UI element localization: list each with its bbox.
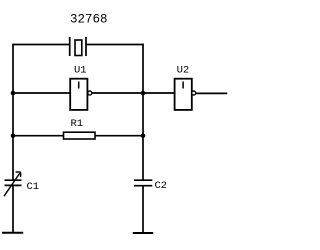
- svg-text:U2: U2: [177, 65, 190, 77]
- node junction left at R1 row: [11, 133, 16, 138]
- wire left rail: [12, 44, 14, 180]
- wire C2 down: [142, 186, 144, 233]
- inverter U1: [70, 79, 92, 110]
- ground under C1: [2, 232, 23, 234]
- wire U1 output to U2 input: [92, 92, 175, 94]
- svg-text:U1: U1: [74, 65, 87, 77]
- svg-text:C1: C1: [27, 181, 40, 193]
- wire U2 output: [196, 92, 228, 94]
- capacitor C2: [134, 180, 152, 186]
- node junction right rail at U1 row: [141, 91, 146, 96]
- svg-text:32768: 32768: [70, 13, 108, 27]
- resistor R1: [64, 132, 96, 139]
- wire R1 left: [13, 135, 64, 137]
- crystal Y1: [70, 37, 86, 56]
- node junction left at U1 row: [11, 91, 16, 96]
- wire C1 down: [12, 185, 14, 232]
- inverter U2: [175, 79, 196, 110]
- wire U1 input: [13, 92, 70, 94]
- svg-text:C2: C2: [155, 180, 168, 192]
- svg-text:R1: R1: [71, 118, 84, 130]
- wire right rail: [142, 44, 144, 180]
- capacitor C1 (variable): [4, 172, 22, 196]
- wire crystal to right rail: [86, 44, 144, 46]
- node junction right at R1 row: [141, 133, 146, 138]
- wire R1 right: [95, 135, 143, 137]
- ground under C2: [133, 232, 153, 234]
- wire top-left horizontal: [13, 44, 70, 46]
